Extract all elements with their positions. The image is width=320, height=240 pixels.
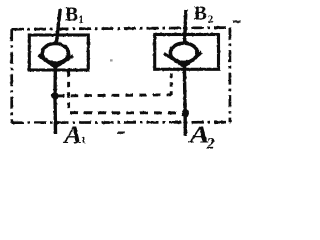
check valve V1 body (left box) xyxy=(29,35,88,70)
svg-text:2: 2 xyxy=(208,13,214,25)
svg-text:B: B xyxy=(65,4,78,26)
junction node on A1 line xyxy=(51,92,58,99)
enclosure boundary (dash-dot rectangle) xyxy=(12,28,231,123)
scan speck mid field xyxy=(110,59,113,61)
check valve V1 ball xyxy=(42,44,68,64)
check valve V2 body (right box) xyxy=(155,35,219,70)
wire: port line B2 to A2 (right vertical) xyxy=(184,10,186,136)
wire: port line B1 to A1 (left vertical) xyxy=(55,9,60,134)
svg-text:A: A xyxy=(62,122,82,149)
pilot line 2 horizontal (to A2 node) xyxy=(70,111,185,114)
svg-text:2: 2 xyxy=(206,136,215,153)
check valve V2 seat xyxy=(164,52,202,66)
scan speck top right xyxy=(233,21,241,23)
junction node on A2 line xyxy=(182,109,189,118)
pilot line 2 vertical (down from V1 body) xyxy=(67,72,70,113)
svg-text:1: 1 xyxy=(81,136,86,147)
check valve V1 seat xyxy=(38,55,73,67)
check valve V2 ball xyxy=(170,43,197,62)
pilot line 1 vertical (up to V2 body) xyxy=(170,72,173,96)
svg-text:B: B xyxy=(194,3,207,25)
svg-text:1: 1 xyxy=(78,14,84,26)
pilot line 1 horizontal (from A1 node to V2) xyxy=(57,95,171,96)
scan speck bottom centre xyxy=(118,132,125,134)
